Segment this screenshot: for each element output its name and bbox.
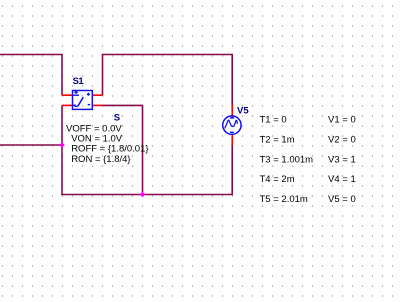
svg-text:S: S [114, 113, 120, 124]
S1 pin (top-left, control +) [62, 94, 73, 96]
wire: from S1 bottom-right pin right and down to bottom rail [103, 105, 143, 194]
svg-text:V5: V5 [237, 105, 249, 116]
S1 pin (top-right, control -) [92, 94, 102, 96]
wire: top horizontal from left edge, down to S1 top-left pin [0, 55, 62, 96]
S1 bottom-left contact jog [73, 105, 78, 106]
junction node at (62,145) [59, 142, 65, 148]
svg-text:V2 = 0: V2 = 0 [328, 135, 356, 146]
svg-text:V5 = 0: V5 = 0 [328, 194, 356, 205]
V5 bottom pin [231, 134, 233, 145]
svg-text:T2 = 1m: T2 = 1m [260, 135, 295, 146]
svg-text:T3 = 1.001m: T3 = 1.001m [260, 154, 314, 165]
S1 pin (bottom-right) [92, 104, 102, 106]
svg-text:V1 = 0: V1 = 0 [328, 115, 356, 126]
svg-text:RON = {1.8/4}: RON = {1.8/4} [71, 154, 130, 165]
wire: from S1 bottom-left pin down, along bottom, up to V5 bottom [62, 105, 232, 194]
S1 plus mark top-left [74, 91, 77, 94]
V5 top pin [231, 105, 233, 119]
svg-text:V4 = 1: V4 = 1 [328, 174, 356, 185]
V5 minus dash (bottom inside) [230, 131, 234, 133]
voltage source V5 (VPWL) [223, 105, 250, 146]
svg-text:T5 = 2.01m: T5 = 2.01m [260, 194, 308, 205]
switch S1 [62, 76, 103, 109]
wire: S1 top-right pin up, across top, down to V5 [103, 55, 233, 106]
V5 body circle [223, 116, 241, 134]
wire: left stub into node at (62,145) [0, 144, 62, 146]
S1 plus mark top-right [87, 93, 90, 96]
S1 body box [73, 91, 93, 110]
S1 switch arm diagonal [78, 97, 84, 106]
junction node at (142.5,194.5) [140, 192, 146, 198]
svg-text:V3 = 1: V3 = 1 [328, 154, 356, 165]
svg-text:S1: S1 [73, 76, 85, 87]
svg-text:T1 = 0: T1 = 0 [260, 115, 287, 126]
V5 plus dash (top inside) [230, 117, 234, 119]
S1 top-left pin interior line [73, 94, 80, 96]
svg-text:T4 = 2m: T4 = 2m [260, 174, 295, 185]
V5 piecewise-linear waveform glyph [225, 120, 238, 128]
S1 pin (bottom-left) [62, 104, 73, 106]
S1 minus mark right [88, 104, 90, 106]
